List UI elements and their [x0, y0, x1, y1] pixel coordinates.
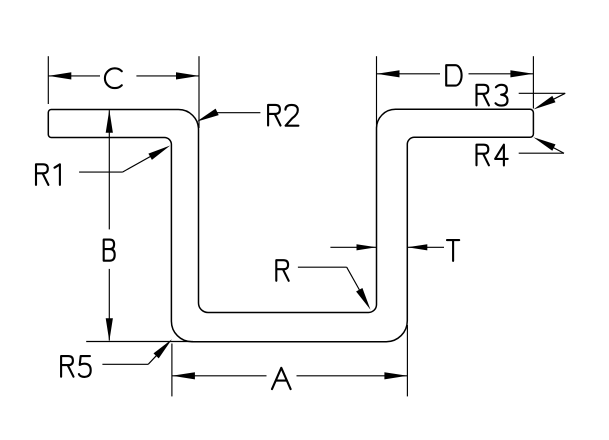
leader R4 — [519, 152, 564, 154]
leader R5 — [102, 363, 148, 365]
dimension B line lower segment — [108, 269, 110, 341]
label A — [272, 368, 291, 389]
dimension C extension line right — [198, 56, 200, 128]
label R2 — [268, 105, 280, 126]
leader R2 — [214, 112, 260, 114]
profile outline of channel cross-section — [48, 109, 533, 341]
leader R3 — [519, 92, 566, 94]
label R5 — [61, 356, 73, 377]
dimension C extension line left — [47, 56, 49, 104]
label D — [446, 65, 461, 85]
dimension T right line with arrow — [407, 246, 444, 248]
leader R — [298, 266, 347, 268]
label R4 — [477, 145, 489, 166]
label B — [104, 240, 115, 261]
label R3 — [477, 85, 489, 106]
label C — [105, 68, 122, 88]
leader R1 — [79, 171, 122, 173]
dimension D extension line left — [376, 56, 378, 127]
dimension A extension line right — [406, 325, 408, 396]
dimension A extension line left — [171, 344, 173, 397]
label T — [447, 240, 459, 261]
dimension C line with arrows — [48, 75, 100, 77]
dimension B bottom extension line — [86, 341, 193, 343]
dimension D extension line right — [532, 56, 534, 108]
dimension D line with arrows — [377, 73, 441, 75]
label R — [276, 260, 288, 281]
dimension T left line with arrow — [330, 246, 376, 248]
label R1 — [36, 164, 48, 185]
dimension A line with arrows — [172, 375, 267, 377]
dimension B line upper segment — [108, 110, 110, 229]
